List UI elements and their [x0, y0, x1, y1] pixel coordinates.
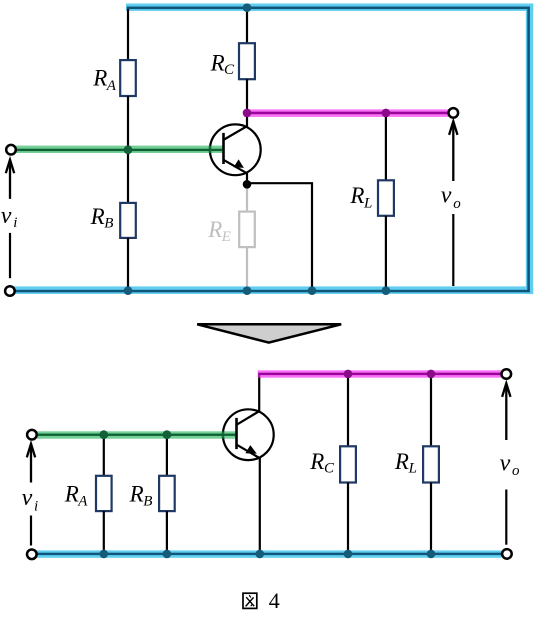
terminal input bottom [5, 286, 15, 296]
node bottom rail / R_E [243, 286, 252, 295]
wire R_C branch from top rail [246, 7, 248, 43]
svg-text:R: R [129, 481, 144, 506]
wire R_L2 branch lower [430, 483, 432, 554]
arrow big gray (transform) [197, 324, 341, 342]
label R_B (bottom) [129, 481, 153, 509]
wire R_B2 branch lower [166, 511, 168, 554]
transistor Q1 body [210, 124, 261, 175]
node rail2 / emitter [255, 550, 264, 559]
transistor Q1 base bar [222, 133, 225, 164]
wire R_A branch upper (top rail to R_A) [127, 7, 129, 60]
label R_L (top) [349, 183, 372, 211]
net Vcc: blue highlight band, right edge [526, 4, 533, 295]
node magenta2 / R_C [344, 370, 353, 379]
net GND2: blue highlight band bottom rail [36, 550, 501, 557]
svg-text:v: v [500, 451, 511, 477]
net Vcc core line, right edge [527, 7, 530, 292]
node output net: magenta highlight band (collector to vo) [244, 109, 450, 117]
resistor R_B [120, 203, 136, 238]
transistor Q2 base bar [235, 418, 238, 449]
wire R_A2 branch lower [103, 511, 105, 554]
svg-text:o: o [453, 196, 461, 212]
node green2 / R_A [99, 430, 108, 439]
transistor Q1 collector diagonal [224, 126, 247, 139]
wire emitter node to right [247, 183, 312, 291]
wire R_L2 branch upper [430, 374, 432, 446]
transistor Q1 arc tint under green band [209, 146, 211, 153]
vo arrow (top circuit) [449, 121, 457, 181]
wire R_E lower (gray, bypassed) [246, 247, 248, 290]
node rail2 / R_C [344, 550, 353, 559]
svg-text:L: L [408, 461, 417, 477]
transistor Q2 emitter arrowhead [245, 445, 256, 454]
label v_i (bottom) [22, 485, 39, 514]
wire R_C2 branch upper [347, 374, 349, 446]
svg-text:A: A [77, 493, 88, 509]
input net green core line [17, 149, 223, 151]
svg-text:B: B [143, 494, 152, 510]
input net2 green band [37, 431, 235, 438]
net GND: blue highlight band, bottom rail [14, 286, 534, 294]
output net2 magenta core [258, 373, 501, 375]
transistor Q1 emitter diagonal [224, 160, 247, 173]
node magenta / R_L junction [382, 109, 391, 118]
wire R_A2 branch upper [103, 435, 105, 476]
node rail2 / R_B [163, 550, 172, 559]
node input net: green highlight band (vi to base) [16, 146, 223, 153]
transistor Q2 emitter diagonal [237, 445, 260, 458]
svg-text:4: 4 [269, 588, 280, 613]
terminal input top [6, 145, 16, 155]
label R_B (top) [90, 204, 114, 232]
output net magenta core line [246, 112, 449, 115]
svg-text:R: R [92, 65, 107, 90]
label R_E (gray) [207, 217, 231, 245]
svg-text:R: R [90, 204, 105, 229]
svg-text:A: A [106, 78, 117, 94]
terminal input2 top [27, 430, 37, 440]
wire green node to R_B [127, 150, 129, 203]
wire emitter to node [246, 173, 248, 185]
vi source arrow [6, 160, 14, 199]
svg-text:R: R [207, 217, 222, 242]
node bottom rail / emitter wire [308, 286, 317, 295]
vo2 arrow [502, 383, 510, 440]
node bottom rail / R_B [124, 286, 133, 295]
svg-text:v: v [441, 183, 452, 209]
wire vi lower [9, 233, 11, 278]
label v_o (bottom) [500, 451, 520, 480]
node green / R_A R_B junction [124, 145, 133, 154]
wire vo lower (top circuit) [452, 214, 454, 286]
node bottom rail / R_L [382, 286, 391, 295]
resistor R_C (bottom) [340, 446, 356, 482]
resistor R_L (bottom) [423, 446, 439, 482]
svg-text:o: o [512, 463, 520, 479]
net GND2 core line [38, 553, 502, 555]
label R_C (bottom) [309, 449, 335, 477]
label R_A (bottom) [64, 481, 89, 509]
label v_o (top) [441, 183, 462, 213]
resistor R_E (gray, bypassed) [239, 212, 255, 248]
svg-text:R: R [210, 50, 225, 75]
svg-text:R: R [64, 481, 79, 506]
wire R_C to collector [246, 79, 248, 126]
wire R_L to bottom rail [385, 216, 387, 291]
svg-text:B: B [104, 216, 113, 232]
caption 図 (drawn glyph) [243, 593, 257, 608]
svg-text:R: R [394, 449, 409, 474]
svg-text:R: R [349, 183, 364, 208]
svg-text:E: E [221, 229, 231, 245]
svg-text:C: C [324, 461, 335, 477]
wire R_B2 branch upper [166, 435, 168, 476]
svg-text:v: v [1, 203, 12, 229]
terminal output top [449, 108, 459, 118]
label R_L (bottom) [394, 449, 417, 477]
wire Q2 emitter down to rail [259, 458, 261, 554]
input net2 green core [38, 434, 235, 436]
label R_C (top) [210, 50, 235, 78]
node rail2 / R_L [427, 550, 436, 559]
svg-text:i: i [34, 498, 38, 514]
svg-text:L: L [363, 196, 372, 212]
terminal input2 bottom [27, 550, 37, 560]
transistor Q2 collector diagonal [237, 411, 259, 424]
transistor Q2 body [223, 409, 274, 460]
terminal output2 top [502, 369, 512, 379]
svg-text:R: R [309, 449, 324, 474]
wire R_A to green node [127, 96, 129, 150]
svg-text:v: v [22, 485, 33, 511]
resistor R_L [378, 180, 394, 216]
resistor R_C [239, 43, 255, 79]
terminal output2 bottom [502, 549, 512, 559]
svg-text:i: i [13, 215, 17, 231]
node collector / magenta junction [243, 109, 252, 118]
node top rail / R_C junction [243, 3, 252, 12]
node emitter junction [243, 180, 252, 189]
node magenta2 / R_L [427, 370, 436, 379]
output net2 magenta band [258, 370, 501, 377]
resistor R_A [120, 60, 136, 96]
transistor Q1 emitter arrowhead [234, 159, 244, 168]
wire R_L branch from magenta [385, 113, 387, 180]
wire R_C2 branch lower [347, 483, 349, 554]
wire Q2 collector up to magenta [258, 377, 260, 411]
net Vcc: blue highlight band, top rail [126, 4, 533, 11]
vi2 arrow [27, 444, 35, 483]
wire R_B to bottom rail [127, 238, 129, 291]
net GND core line, bottom rail [16, 290, 530, 293]
transistor Q2 arc tint under green band [222, 431, 224, 438]
wire vo2 lower [505, 490, 507, 545]
resistor R_B (bottom) [159, 476, 175, 511]
svg-text:C: C [224, 62, 235, 78]
node green2 / R_B [163, 430, 172, 439]
label R_A (top) [92, 65, 117, 94]
wire R_E upper (gray, bypassed) [246, 184, 248, 211]
label v_i (top) [1, 203, 18, 231]
resistor R_A (bottom) [96, 476, 112, 511]
wire vi2 lower [30, 516, 32, 546]
net Vcc core line, top rail [127, 7, 530, 10]
node rail2 / R_A [100, 550, 109, 559]
